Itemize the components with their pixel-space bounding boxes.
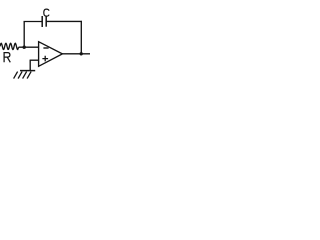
ground hatch 4 (27, 72, 31, 79)
op-amp minus sign (43, 47, 48, 49)
resistor R (0, 43, 19, 49)
wire feedback left vertical (23, 22, 25, 48)
label C (44, 9, 49, 16)
wire resistor to op-amp inverting input (19, 46, 39, 48)
op-amp plus sign (42, 56, 48, 62)
wire feedback top right horizontal (46, 20, 82, 22)
label R (4, 53, 10, 63)
wire output (62, 53, 90, 55)
node junction dot right (80, 52, 83, 55)
op-amp U1 (39, 42, 63, 67)
node junction dot left (23, 46, 26, 49)
wire non-inverting input stub (30, 59, 38, 61)
capacitor C right plate (45, 16, 47, 27)
ground hatch 3 (23, 72, 27, 79)
wire feedback right vertical (80, 21, 82, 54)
ground hatch 2 (18, 72, 22, 79)
wire to ground vertical (29, 60, 31, 71)
capacitor C left plate (41, 16, 43, 27)
wire feedback top left horizontal (24, 21, 43, 23)
ground hatch 1 (14, 72, 18, 79)
ground bar (20, 70, 35, 72)
